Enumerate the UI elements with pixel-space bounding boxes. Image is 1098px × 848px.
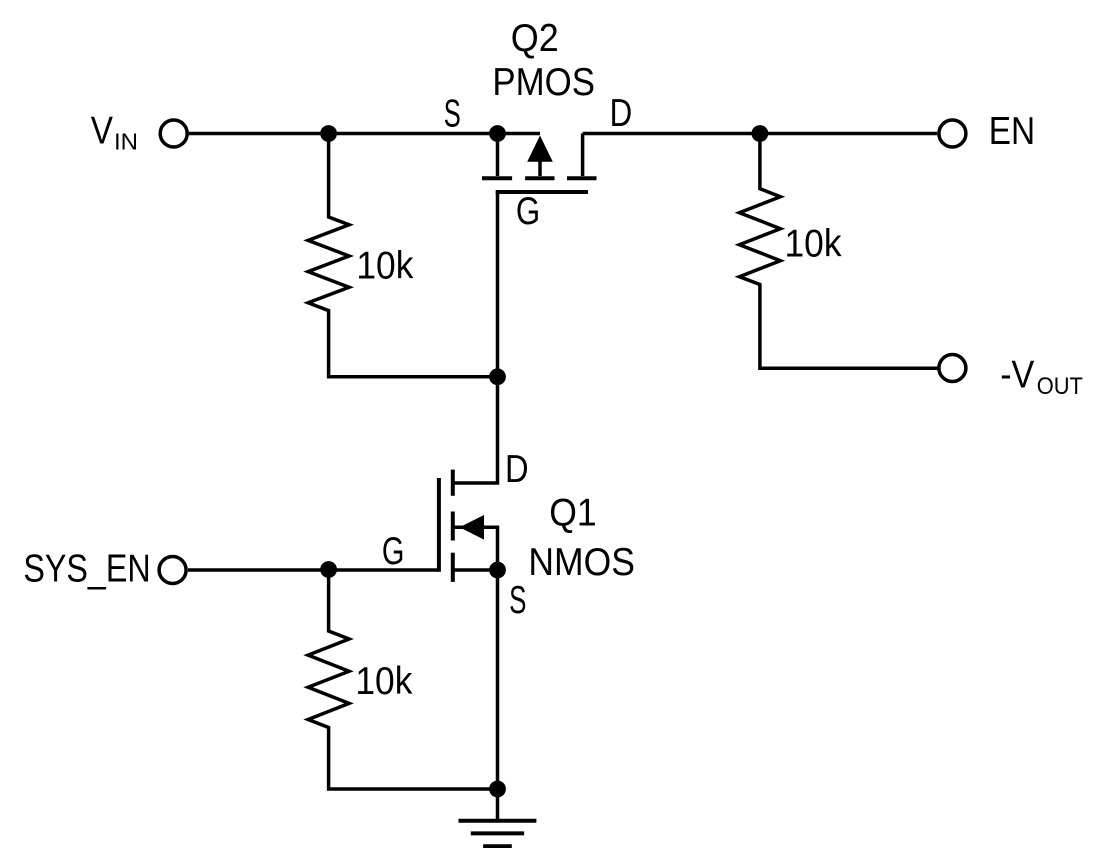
svg-text:G: G	[382, 530, 405, 573]
transistor Q1 NMOS body arrow	[452, 515, 498, 570]
transistor Q1 source channel bar	[451, 553, 455, 582]
node E: NMOS source	[489, 562, 506, 579]
terminal EN	[939, 120, 966, 147]
node F: ground junction	[489, 781, 506, 798]
transistor Q2 gate plate	[496, 190, 588, 194]
node G: SYS_EN / R2 junction	[320, 561, 337, 578]
svg-text:IN: IN	[114, 128, 138, 154]
wire net EN: Q2 drain to EN terminal	[583, 132, 938, 136]
transistor Q2 PMOS body arrow	[527, 136, 553, 177]
svg-text:Q2: Q2	[511, 17, 559, 60]
svg-text:Q1: Q1	[549, 491, 596, 534]
ground bar 1	[459, 819, 537, 823]
transistor Q2 source channel bar	[482, 176, 512, 180]
svg-text:-V: -V	[1000, 354, 1034, 397]
wire ground stub	[496, 789, 500, 821]
svg-text:D: D	[505, 448, 529, 491]
transistor Q1 gate plate	[437, 478, 441, 572]
transistor Q2 drain channel bar	[567, 176, 597, 180]
node B: PMOS source	[489, 125, 506, 142]
svg-text:G: G	[516, 190, 540, 233]
resistor R2 10k (SYS_EN to GND) with leads	[308, 570, 497, 789]
node D: PMOS gate / NMOS drain junction	[489, 368, 506, 385]
terminal -VOUT	[939, 355, 966, 382]
resistor R1 10k (VIN to Q2 gate) with leads	[308, 134, 497, 377]
ground bar 2	[471, 831, 524, 835]
svg-text:10k: 10k	[355, 660, 412, 703]
transistor Q1 body channel bar	[451, 512, 455, 541]
svg-text:PMOS: PMOS	[492, 61, 595, 104]
svg-text:NMOS: NMOS	[528, 541, 635, 584]
svg-text:V: V	[91, 110, 113, 153]
svg-text:10k: 10k	[356, 245, 413, 288]
svg-text:SYS_EN: SYS_EN	[23, 548, 150, 591]
wire NMOS source horizontal	[452, 568, 498, 572]
wire PMOS source vertical	[496, 134, 500, 177]
transistor Q1 drain channel bar	[451, 470, 455, 496]
wire net VIN: terminal to Q2 source	[189, 132, 540, 136]
svg-text:S: S	[444, 93, 461, 136]
wire PMOS drain vertical	[581, 134, 585, 177]
terminal VIN	[160, 120, 187, 147]
wire net Q2 gate / Q1 drain	[452, 192, 498, 483]
svg-text:D: D	[610, 92, 633, 135]
svg-text:EN: EN	[989, 110, 1035, 153]
svg-text:OUT: OUT	[1037, 373, 1083, 400]
wire net SYS_EN: terminal to Q1 gate	[188, 568, 439, 572]
node A: VIN / R1 junction	[320, 125, 337, 142]
svg-text:10k: 10k	[785, 223, 842, 266]
node C: EN / R3 junction	[752, 125, 769, 142]
terminal SYS_EN	[159, 557, 186, 584]
ground bar 3	[483, 844, 512, 848]
transistor Q2 body channel bar	[525, 176, 554, 180]
wire NMOS source column down to ground node	[496, 570, 500, 789]
resistor R3 10k (EN to -VOUT) with leads	[739, 134, 937, 369]
svg-text:S: S	[509, 579, 526, 622]
